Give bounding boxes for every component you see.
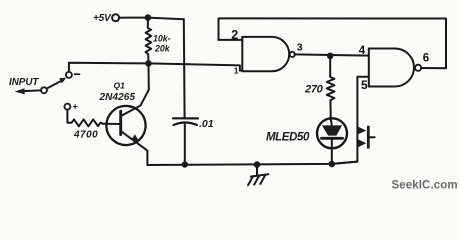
svg-text:10k-: 10k- (153, 33, 171, 43)
switch S1 throw (66, 72, 72, 78)
svg-text:20k: 20k (154, 44, 171, 54)
wire collector (122, 63, 149, 115)
wire pin5 down (332, 77, 357, 164)
svg-text:2: 2 (231, 28, 238, 42)
svg-text:Q1: Q1 (114, 81, 126, 91)
svg-text:+5V: +5V (93, 13, 112, 24)
emitter lead (121, 131, 148, 165)
resistor R1 10k-20k (146, 18, 152, 64)
bubble U1a (290, 52, 295, 57)
capacitor C2 .01 (173, 117, 198, 119)
svg-text:2N4265: 2N4265 (99, 92, 136, 103)
detector bar (367, 126, 370, 149)
svg-text:INPUT: INPUT (9, 77, 39, 88)
svg-text:4700: 4700 (73, 130, 98, 141)
pin 2 wire (219, 39, 243, 41)
nand gate U1b (369, 49, 414, 87)
node LED bottom junction (329, 161, 336, 168)
node ground junction (254, 161, 261, 168)
svg-text:5: 5 (361, 78, 368, 92)
svg-text:6: 6 (423, 53, 429, 65)
minus mark (75, 73, 80, 75)
resistor 4700 (67, 110, 103, 127)
wire +5V down to C2 (183, 19, 186, 118)
photo arrow 2 (358, 139, 366, 147)
detector lead tick (370, 136, 375, 138)
wire switch to node (69, 63, 149, 72)
feedback wire top (219, 18, 447, 68)
ground rail (147, 162, 357, 165)
wire gate1 out (294, 54, 368, 55)
node collector junction (145, 60, 152, 67)
terminal plus (64, 104, 70, 110)
nand gate U1a (242, 37, 289, 71)
wire node to gate pin1 (149, 63, 243, 70)
wire +5V rail (119, 18, 184, 20)
transistor Q1 (106, 106, 145, 145)
svg-text:SeekIC.com: SeekIC.com (392, 179, 458, 191)
resistor 270 (327, 56, 335, 121)
node junction C2 bottom (182, 161, 188, 167)
base lead (103, 123, 121, 125)
terminal +5V (112, 14, 119, 21)
svg-text:4: 4 (359, 45, 366, 57)
svg-text:.01: .01 (199, 118, 214, 130)
svg-text:+: + (73, 102, 78, 112)
wire C2 to ground rail (184, 124, 186, 165)
svg-text:MLED50: MLED50 (266, 131, 310, 143)
LED MLED50 (317, 118, 347, 148)
ground symbol (256, 165, 258, 175)
pin 5 stub (357, 76, 368, 78)
svg-text:270: 270 (304, 84, 324, 96)
input arrow (19, 89, 41, 92)
node junction R270 (327, 53, 334, 60)
svg-text:3: 3 (297, 42, 303, 54)
bubble U1b (415, 65, 421, 71)
photo arrow 1 (358, 127, 366, 135)
node junction R1 top (145, 14, 152, 21)
switch arm (47, 81, 61, 89)
svg-text:1: 1 (234, 66, 239, 76)
switch S1 pole (41, 87, 47, 93)
